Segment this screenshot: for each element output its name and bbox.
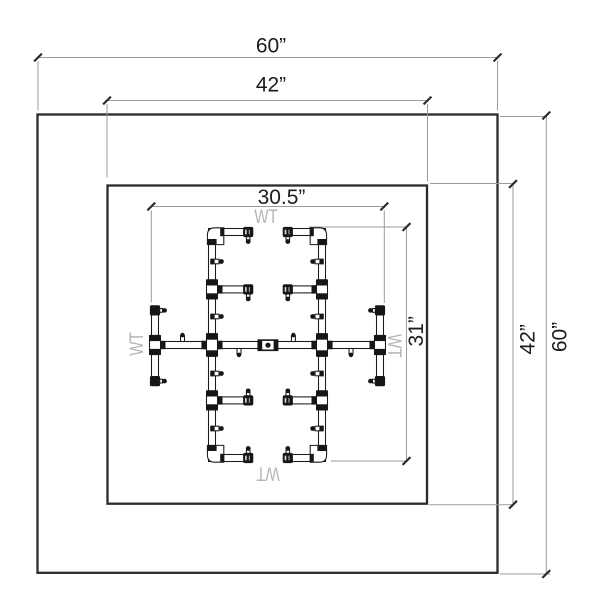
dimension 42in right: label [517, 324, 540, 354]
jet cap bottom-left branch [244, 446, 253, 463]
jet nub left header upper [211, 259, 224, 264]
tee left outer stub / main [150, 335, 166, 354]
dimension 30.5in: dimension line [151, 206, 384, 208]
label WT bottom [256, 462, 280, 483]
dimension 42in right: extension line bottom [429, 504, 513, 506]
cap left outer stub bottom [150, 376, 167, 385]
svg-text:30.5”: 30.5” [258, 186, 306, 209]
dimension 42in right: tick top [509, 180, 517, 188]
svg-text:60”: 60” [548, 322, 571, 352]
jet nub left header mid-upper [211, 314, 224, 319]
jet cap top-left branch [244, 227, 253, 244]
cross fitting right header / main [312, 334, 332, 357]
cap right outer stub top [368, 306, 385, 315]
dimension 60in top: extension line left [37, 61, 39, 111]
svg-text:60”: 60” [256, 34, 286, 57]
svg-text:42”: 42” [256, 73, 286, 96]
jet cap upper-right tee branch [283, 285, 292, 302]
dimension 42in top: tick left [103, 97, 111, 105]
right header pipe (vertical) [319, 229, 326, 462]
upper-left tee branch pipe [216, 286, 244, 293]
dimension 30.5in: tick left [147, 203, 155, 211]
cap right outer stub bottom [368, 376, 385, 385]
cap left outer stub top [150, 306, 167, 315]
tee lower-left header [207, 391, 223, 410]
elbow bottom-left [207, 445, 223, 462]
cross fitting left header / main [202, 334, 222, 357]
jet cap lower-left tee branch [244, 389, 253, 406]
svg-text:WT: WT [254, 207, 278, 228]
dimension 31in: extension line top [309, 226, 407, 228]
jet nub main line near-left (down) [237, 349, 241, 358]
dimension 30.5in: extension line right [383, 211, 385, 304]
jet nub left header mid-lower [211, 371, 224, 376]
jet cap top-right branch [283, 227, 292, 244]
jet nub right header upper [310, 259, 323, 264]
tee upper-right header [312, 280, 328, 299]
label WT right [383, 334, 404, 358]
dimension 60in top: tick right [494, 54, 502, 62]
svg-text:WT: WT [127, 332, 148, 356]
jet cap bottom-right branch [283, 446, 292, 463]
dimension 42in top: extension line left [106, 104, 108, 178]
dimension 31in: label [405, 316, 428, 346]
jet nub right header mid-lower [310, 371, 323, 376]
dimension 31in: extension line bottom [331, 460, 407, 462]
lower-right tee branch pipe [292, 397, 318, 404]
elbow bottom-right [310, 445, 326, 462]
jet nub right header mid-upper [310, 314, 323, 319]
dimension 42in right: dimension line [512, 184, 514, 505]
jet cap lower-right tee branch [283, 389, 292, 406]
jet nub main line near-right (up) [291, 333, 295, 342]
upper-right tee branch pipe [292, 286, 318, 293]
jet cap upper-left tee branch [244, 285, 253, 302]
dimension 60in right: label [548, 322, 571, 352]
outer square (60in fire pit enclosure) [38, 115, 498, 573]
dimension 31in: tick top [403, 223, 411, 231]
svg-text:WT: WT [383, 334, 404, 358]
dimension 31in: tick bottom [403, 457, 411, 465]
dimension 60in right: tick top [542, 112, 550, 120]
dimension 31in: dimension line [406, 227, 408, 461]
elbow top-left [207, 228, 223, 245]
inner square (42in opening) [108, 186, 428, 504]
svg-text:WT: WT [256, 462, 280, 483]
main supply pipe (horizontal) [155, 342, 380, 349]
tee right outer stub / main [370, 335, 386, 354]
dimension 30.5in: tick right [380, 203, 388, 211]
top-right branch pipe [292, 229, 318, 236]
jet nub right header lower [310, 426, 323, 431]
tee upper-left header [207, 280, 223, 299]
dimension 60in right: extension line top [500, 116, 547, 118]
dimension 60in right: dimension line [545, 116, 547, 575]
dimension 60in right: tick bottom [542, 570, 550, 578]
lower-left tee branch pipe [216, 397, 244, 404]
dimension 42in top: tick right [424, 97, 432, 105]
dimension 42in top: extension line right [427, 104, 429, 182]
dimension 60in right: extension line bottom [500, 573, 551, 575]
jet nub left header lower [211, 426, 224, 431]
dimension 42in top: dimension line [107, 100, 428, 102]
center inlet fitting on main line [258, 340, 277, 350]
left outer stub pipe [152, 306, 159, 386]
dimension 42in right: tick bottom [509, 501, 517, 509]
dimension 30.5in: extension line left [150, 211, 152, 303]
label WT left [127, 332, 148, 356]
svg-text:42”: 42” [517, 324, 540, 354]
left header pipe (vertical) [209, 229, 216, 462]
jet nub main line far-right (down) [349, 349, 353, 358]
bottom-right branch pipe [292, 455, 318, 462]
dimension 42in right: extension line top [430, 183, 513, 185]
dimension 60in top: tick left [34, 54, 42, 62]
bottom-left branch pipe [216, 455, 244, 462]
top-left branch pipe [216, 229, 244, 236]
elbow top-right [310, 228, 326, 245]
dimension 60in top: dimension line [38, 57, 498, 59]
svg-text:31”: 31” [405, 316, 428, 346]
jet nub main line far-left (up) [180, 333, 184, 342]
tee lower-right header [312, 391, 328, 410]
dimension 60in top: extension line right [497, 61, 499, 111]
right outer stub pipe [377, 306, 384, 386]
